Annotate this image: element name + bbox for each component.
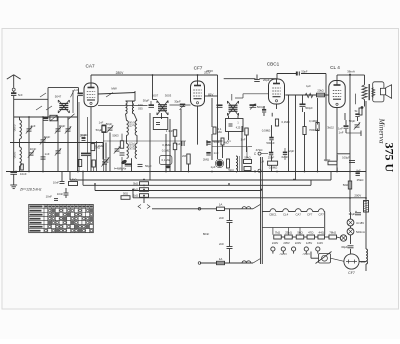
label 375U <box>383 143 397 173</box>
plug 3 <box>292 247 296 254</box>
resistor 1k c <box>133 194 148 198</box>
svg-text:3000: 3000 <box>13 152 17 159</box>
trimmer C3 <box>55 126 61 133</box>
rectifier CF7 circle <box>344 254 359 269</box>
bus 280V <box>91 74 365 99</box>
svg-text:2MΩ: 2MΩ <box>203 158 210 162</box>
label tun1 <box>31 124 36 128</box>
svg-text:50pF: 50pF <box>106 122 113 126</box>
wire switch <box>311 252 319 259</box>
resistor 200 psu <box>324 158 337 165</box>
svg-text:Minerva: Minerva <box>378 118 387 144</box>
svg-text:1kΩ: 1kΩ <box>133 194 138 198</box>
wire IFT2 down <box>229 116 247 153</box>
label 2x18 <box>0 0 1 1</box>
wire tuner v5 <box>77 96 79 172</box>
svg-text:50pF: 50pF <box>349 119 356 123</box>
label tun5 <box>45 152 50 156</box>
wire CBC1 top <box>277 69 308 79</box>
wire det h <box>212 141 223 158</box>
svg-text:200Ω: 200Ω <box>324 158 331 162</box>
wire cbc down <box>264 105 277 172</box>
pot wiper symbol <box>138 205 150 209</box>
wire CL4 grid <box>328 94 330 96</box>
resistor 01M IFT2 <box>213 127 222 134</box>
switch MW <box>106 93 113 98</box>
resistor 20k box <box>317 89 325 97</box>
wire stack <box>143 185 145 204</box>
mains switch <box>316 252 344 264</box>
svg-text:1MΩ: 1MΩ <box>94 146 100 150</box>
svg-text:0,1MΩ: 0,1MΩ <box>309 119 317 123</box>
label 20pF cbc2 <box>288 149 295 153</box>
svg-text:/125V: /125V <box>280 252 287 256</box>
resistor zigzag <box>305 93 313 97</box>
svg-text:CA7: CA7 <box>85 64 95 69</box>
svg-text:5,6kΩ: 5,6kΩ <box>69 178 76 182</box>
resistor 5k a <box>133 182 148 186</box>
svg-text:5003: 5003 <box>112 134 119 138</box>
wire CF7 k <box>188 164 190 172</box>
label osc pad <box>106 122 113 126</box>
resistor 50 psu <box>343 181 352 189</box>
IF transformer 2 <box>228 101 239 116</box>
mains line 1 <box>152 208 253 210</box>
label 02 cl4 <box>349 119 356 123</box>
svg-text:125V: 125V <box>306 241 312 245</box>
CA7 cathode cluster <box>78 102 107 172</box>
svg-text:1nF: 1nF <box>241 138 246 142</box>
svg-text:3kΩ2: 3kΩ2 <box>327 126 334 130</box>
svg-text:4,25: 4,25 <box>236 128 241 130</box>
coil rect side <box>366 249 368 264</box>
antenna <box>7 75 21 91</box>
label 280V <box>116 69 213 75</box>
svg-text:252V: 252V <box>204 71 211 75</box>
svg-text:CA7: CA7 <box>295 213 301 217</box>
resistor 56k lb <box>69 178 78 186</box>
capacitor 20pF cbc <box>268 152 289 159</box>
wire rect r <box>359 198 366 271</box>
wire v x326 <box>325 95 327 161</box>
fuse 1A bot <box>217 257 225 265</box>
speaker <box>380 85 391 99</box>
svg-text:40pF: 40pF <box>44 135 51 139</box>
label sel row2 <box>280 252 310 256</box>
svg-text:5047: 5047 <box>55 95 62 99</box>
tube CL4 <box>329 81 345 108</box>
heater chain wire <box>262 211 324 213</box>
wire CA7 cathode <box>90 107 92 172</box>
svg-text:80nF: 80nF <box>203 232 210 236</box>
coil osc pair1 <box>126 101 144 114</box>
label CA7 <box>85 64 95 69</box>
svg-text:50pF: 50pF <box>214 140 221 144</box>
svg-text:38mA: 38mA <box>347 70 355 74</box>
wire CL4 down <box>336 108 338 172</box>
svg-text:2nF: 2nF <box>219 242 224 246</box>
plug 4 <box>304 247 308 254</box>
bus 3 <box>83 172 311 186</box>
wire psu h <box>337 154 350 172</box>
wire tuner v1 <box>28 117 30 172</box>
trimmer IFT2 r <box>250 104 257 110</box>
lamp pilot 2 <box>347 228 365 235</box>
capacitor 10nF lb2 <box>57 192 69 196</box>
wire v x242 <box>241 126 243 172</box>
svg-text:25kΩ: 25kΩ <box>285 230 293 234</box>
trimmer C7 <box>55 148 61 155</box>
bus 5 <box>133 191 366 198</box>
heater CF7b <box>318 209 324 217</box>
wire lb <box>62 172 66 199</box>
trimmer CF7 g <box>174 100 185 110</box>
trimmer C2 <box>40 137 46 144</box>
resistor 5k cl4 <box>355 108 362 115</box>
tube CA7 <box>84 83 98 107</box>
wire antenna top horiz <box>14 88 79 117</box>
wire CA7 k2 <box>93 167 95 172</box>
wire heater end <box>324 212 326 235</box>
input transformer <box>43 88 83 121</box>
wire v x170b <box>169 119 171 172</box>
capacitor cbc a <box>266 138 274 145</box>
svg-text:62pF: 62pF <box>288 149 295 153</box>
svg-text:280: 280 <box>361 260 366 264</box>
label 01M det2 <box>224 141 229 145</box>
wire IFT2 step <box>235 94 269 98</box>
svg-text:50pF: 50pF <box>301 69 307 73</box>
IF transformer 1 <box>157 101 168 116</box>
svg-text:10nF: 10nF <box>46 195 53 199</box>
wire CF7 top <box>197 75 199 81</box>
svg-text:300Ω: 300Ω <box>81 133 89 137</box>
wire CA7 grid right <box>98 93 135 95</box>
wire xf sec <box>373 82 384 102</box>
fuse 1A top <box>217 203 225 211</box>
svg-text:10nF: 10nF <box>57 192 63 196</box>
label MW <box>111 86 116 90</box>
label 38mA <box>347 70 355 74</box>
svg-text:44Ω: 44Ω <box>319 230 325 234</box>
svg-text:50pF: 50pF <box>143 99 150 103</box>
resistor 05M cbc <box>262 129 271 133</box>
capacitor 10nF lb <box>53 181 65 185</box>
trimmer IFT1 <box>149 101 155 107</box>
svg-text:30µF: 30µF <box>349 212 356 216</box>
svg-text:205V: 205V <box>283 241 289 245</box>
coil det choke <box>236 156 240 172</box>
svg-text:5kΩ: 5kΩ <box>297 230 303 234</box>
label heater volts <box>0 0 1 1</box>
label 1nF det <box>241 138 246 142</box>
svg-text:11000: 11000 <box>132 142 136 150</box>
svg-text:5kΩ: 5kΩ <box>228 168 234 172</box>
wire CF7 in <box>98 104 191 107</box>
wire v x196b <box>197 106 199 145</box>
label CL4 <box>330 65 340 70</box>
svg-text:CF7: CF7 <box>319 213 325 217</box>
capacitor 2nF m2 <box>219 242 232 249</box>
coil L2 3000 <box>13 147 22 166</box>
capacitor 10nF to ground <box>10 172 26 176</box>
svg-text:20kΩ: 20kΩ <box>317 89 323 93</box>
label ZF frequency <box>19 188 42 192</box>
svg-text:500pF: 500pF <box>305 106 313 110</box>
wire v x345 <box>344 113 346 120</box>
svg-text:240V: 240V <box>272 241 278 245</box>
svg-text:500pF: 500pF <box>266 141 274 145</box>
resistor 01M det <box>221 138 231 145</box>
capacitor 30uF b <box>341 245 353 249</box>
svg-text:1nF: 1nF <box>45 152 50 156</box>
svg-text:0300: 0300 <box>13 125 17 132</box>
wire osc drop <box>134 91 136 101</box>
trimmer C1 <box>26 126 32 133</box>
junction bus dots <box>152 74 351 76</box>
wire 20uF down <box>0 0 1 1</box>
label tun3 <box>59 124 66 128</box>
svg-text:2M: 2M <box>182 154 187 158</box>
wire tuner v2 <box>42 117 44 172</box>
label 300 ca7 <box>81 133 89 137</box>
wire avc line <box>10 142 103 144</box>
svg-text:700Ω: 700Ω <box>309 128 316 132</box>
label 3003b <box>165 94 172 98</box>
svg-text:10nF: 10nF <box>30 147 37 151</box>
svg-text:1A: 1A <box>219 203 223 207</box>
svg-text:8µF: 8µF <box>356 170 361 173</box>
svg-text:MΩ: MΩ <box>217 130 221 134</box>
label 25k psu <box>357 178 365 182</box>
wire IFT2 v <box>211 98 213 160</box>
wire cbc cluster <box>261 148 285 160</box>
svg-text:110V: 110V <box>317 241 323 245</box>
label tun4 <box>30 147 37 151</box>
trimmer det <box>203 151 219 162</box>
junction dots tuner <box>15 116 59 172</box>
svg-text:200V: 200V <box>354 194 361 198</box>
trimmer C5 <box>28 150 34 157</box>
mains choke 2 <box>242 261 251 263</box>
svg-text:CF7: CF7 <box>348 271 355 275</box>
label sel voltages <box>272 241 323 245</box>
wire to rect <box>350 249 352 254</box>
svg-text:7kΩ: 7kΩ <box>275 230 281 234</box>
resistor 5k b <box>133 188 148 192</box>
lamp pilot 1 <box>347 219 364 226</box>
bus 2 <box>70 172 331 181</box>
heater CF7a <box>307 209 313 217</box>
svg-text:375 U: 375 U <box>383 143 397 173</box>
resistor vol <box>227 159 230 168</box>
svg-text:50µF: 50µF <box>96 128 103 132</box>
rail right <box>365 101 367 198</box>
mains terminals <box>198 208 201 265</box>
wire cpl down <box>289 95 303 172</box>
wire v x2175 <box>217 98 219 159</box>
label 50pF ift1 <box>143 99 150 103</box>
svg-text:30pF: 30pF <box>174 100 181 104</box>
wire selector feed <box>262 228 324 235</box>
switch mains 1 <box>253 204 261 209</box>
wire cl4 misc <box>346 117 361 136</box>
wire tuner v4 <box>67 117 69 172</box>
capacitor 50uF <box>138 164 152 168</box>
svg-text:1µF: 1µF <box>306 84 311 88</box>
capacitor 10nF cl4 <box>327 126 343 131</box>
svg-text:280V: 280V <box>116 71 125 75</box>
label rect CF7 <box>348 271 355 275</box>
svg-text:5nF: 5nF <box>18 93 23 97</box>
svg-text:/150V: /150V <box>303 252 310 256</box>
svg-text:50µF: 50µF <box>145 164 152 168</box>
capacitor 1uF CF7 <box>176 141 184 146</box>
label CBC1 <box>267 62 280 67</box>
capacitor 20uF bus <box>254 75 270 83</box>
wire antenna down <box>13 91 15 171</box>
wire osc links <box>126 101 138 172</box>
svg-text:78kΩ: 78kΩ <box>329 230 337 234</box>
svg-text:220V: 220V <box>295 241 301 245</box>
svg-text:ZF=128,5 kHz: ZF=128,5 kHz <box>19 188 42 192</box>
capacitor 100uF psu <box>342 156 355 163</box>
trimmer cl4 <box>354 122 360 129</box>
resistor sel 6 <box>329 230 337 239</box>
resistor sel 3 <box>296 230 304 239</box>
wire sel h <box>281 237 340 238</box>
bus 4 <box>95 185 262 190</box>
svg-text:CL4: CL4 <box>283 213 289 217</box>
junction dots buses <box>77 74 367 199</box>
tube CF7 <box>191 81 205 106</box>
svg-text:0,5MΩ: 0,5MΩ <box>269 166 278 170</box>
svg-text:3003: 3003 <box>165 94 172 98</box>
svg-text:520mA: 520mA <box>356 230 365 234</box>
svg-text:1µF: 1µF <box>210 165 215 169</box>
svg-text:4×18V: 4×18V <box>356 221 364 225</box>
svg-text:20µF: 20µF <box>263 78 270 82</box>
svg-text:CL 4: CL 4 <box>330 65 340 70</box>
resistor 01M cbc <box>275 119 289 126</box>
ground <box>10 175 17 189</box>
resistor 700 cpl <box>303 127 316 135</box>
coil L1 0300 <box>13 120 22 139</box>
wire mains cap v <box>229 209 231 263</box>
wire IFT2 drop <box>231 94 233 101</box>
capacitor above table <box>46 195 58 201</box>
label 3007 <box>152 94 159 98</box>
trimmer C4 <box>65 126 71 133</box>
svg-text:0,5MΩ: 0,5MΩ <box>262 129 271 133</box>
mains choke 1 <box>242 207 251 209</box>
ww resistor psu <box>364 201 369 213</box>
wire cbc cl4 <box>285 94 328 96</box>
resistor 50k det <box>244 156 252 164</box>
resistor IFT2 r <box>245 128 248 135</box>
svg-text:47kΩ: 47kΩ <box>256 148 264 152</box>
svg-text:5kΩ: 5kΩ <box>133 182 138 186</box>
label 50uF ca7 <box>96 128 103 132</box>
trimmer osc c <box>103 146 120 164</box>
svg-text:1A: 1A <box>219 257 223 261</box>
volume pot <box>215 159 223 167</box>
resistor 01M cpl <box>309 119 319 131</box>
heater CL4 <box>283 209 289 217</box>
label tun2 <box>44 135 51 139</box>
wire v x207 <box>206 140 208 146</box>
capacitor 50pF antenna <box>11 93 23 97</box>
label Minerva <box>378 118 387 144</box>
svg-text:CBC1: CBC1 <box>269 213 277 217</box>
resistor 2M CF7 <box>182 154 190 164</box>
terminal C top <box>248 147 262 157</box>
wire CA7 anode up <box>90 75 92 83</box>
wire v x261c <box>212 147 247 159</box>
label 185V <box>204 71 213 97</box>
wire cpl v1 <box>296 95 318 180</box>
resistor R1 <box>21 164 24 170</box>
wire v x297b <box>297 183 299 185</box>
wire coil col <box>19 117 21 172</box>
svg-text:f=468kHz: f=468kHz <box>114 167 127 171</box>
resistor sel 5 <box>318 230 325 239</box>
capacitor 2nF m1 <box>219 216 232 223</box>
svg-text:1nF: 1nF <box>74 88 79 92</box>
plug 2 <box>281 247 285 254</box>
svg-text:035: 035 <box>138 107 143 111</box>
capacitor C6 <box>41 157 46 159</box>
switch contacts wave band <box>36 93 52 110</box>
svg-text:0,1MΩ: 0,1MΩ <box>162 158 170 162</box>
wire CF7 out <box>205 95 219 97</box>
wire CL4 top <box>336 75 338 81</box>
lamp sel <box>340 235 346 241</box>
label 50k vol <box>228 168 234 172</box>
capacitor cl4 b <box>344 114 360 128</box>
label 5003 <box>94 134 119 150</box>
box det small <box>244 167 251 171</box>
svg-text:1nF: 1nF <box>339 131 344 135</box>
resistor 05M cbc2 <box>260 160 278 166</box>
wire v x103 <box>102 143 104 160</box>
voltage table <box>29 205 94 233</box>
capacitor 30uF a <box>349 211 361 216</box>
svg-text:100µF: 100µF <box>342 156 350 160</box>
resistor sel 4 <box>307 230 315 239</box>
svg-text:2nF: 2nF <box>219 216 224 220</box>
wire tuner v3 <box>57 117 59 172</box>
svg-text:3007: 3007 <box>152 94 159 98</box>
coil osc pair3 <box>127 142 138 158</box>
wire horiz 141 ext <box>103 140 186 142</box>
label 01 cl4 <box>339 131 344 135</box>
wire CF7 gwire <box>180 109 182 172</box>
box IFT1 caps <box>153 118 176 137</box>
capacitor osc 1nF <box>99 121 106 133</box>
svg-text:CF7: CF7 <box>194 65 203 70</box>
output transformer <box>362 84 375 100</box>
heater CA7 <box>295 209 301 217</box>
svg-text:50Ω: 50Ω <box>343 183 349 187</box>
svg-text:15pF: 15pF <box>59 124 66 128</box>
terminal C bot <box>254 169 261 173</box>
capacitor 560pF <box>300 84 314 110</box>
svg-text:031: 031 <box>132 122 136 127</box>
box IFT2 caps <box>226 119 244 132</box>
wire osc v2 <box>110 133 122 172</box>
coil osc pair2 <box>127 121 138 136</box>
